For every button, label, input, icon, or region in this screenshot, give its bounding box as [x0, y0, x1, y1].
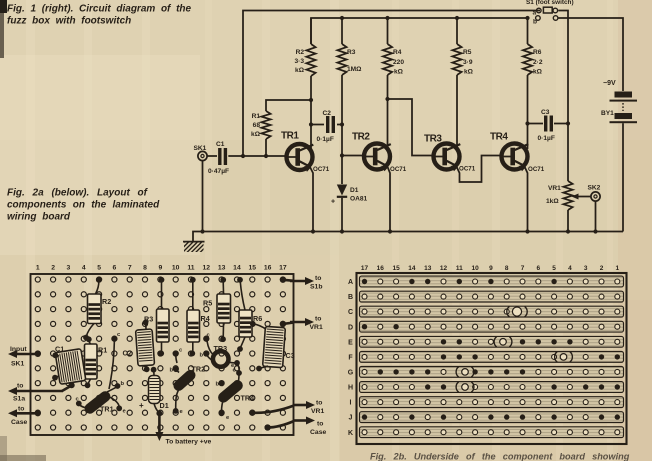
svg-text:+: + [139, 401, 144, 410]
svg-text:0·1µF: 0·1µF [538, 135, 555, 142]
svg-text:kΩ: kΩ [251, 131, 261, 138]
svg-text:D1: D1 [350, 187, 359, 194]
svg-text:3·9: 3·9 [463, 59, 473, 66]
copper strip row I [360, 397, 624, 408]
svg-text:kΩ: kΩ [464, 69, 474, 76]
wire leads TR3 [207, 341, 239, 372]
board holes grid [35, 277, 285, 430]
svg-text:to: to [317, 421, 323, 428]
strip cut row G [462, 369, 469, 376]
resistor R3 1M [337, 18, 346, 125]
svg-text:components on the laminated: components on the laminated [7, 200, 160, 211]
svg-text:7: 7 [521, 265, 525, 272]
svg-text:−9V: −9V [603, 80, 616, 87]
row letters A-K [348, 279, 354, 437]
svg-text:a: a [533, 10, 537, 17]
wire top rail (input to footswitch pole a) [243, 11, 540, 156]
svg-text:14: 14 [233, 265, 241, 272]
svg-text:SK2: SK2 [588, 185, 601, 192]
wire leads C2 [144, 324, 147, 369]
svg-text:3: 3 [67, 265, 71, 272]
wire SK2 to ground rail [595, 201, 597, 231]
wire SK1 to C1 [207, 155, 217, 157]
resistor R5 (board) [203, 294, 231, 323]
svg-text:D1: D1 [160, 401, 169, 410]
wire C1 to TR1 base [228, 155, 287, 157]
wire R6 bottom to TR4 collector [527, 124, 529, 150]
resistor R1 68k [261, 111, 270, 156]
svg-text:G: G [348, 370, 354, 377]
svg-text:K: K [348, 430, 353, 437]
svg-text:kΩ: kΩ [533, 69, 543, 76]
svg-text:16: 16 [264, 265, 272, 272]
svg-text:To battery +ve: To battery +ve [166, 439, 212, 446]
socket SK1 [194, 145, 208, 161]
svg-text:b: b [533, 19, 537, 26]
svg-text:3·3: 3·3 [294, 58, 304, 65]
svg-text:OC71: OC71 [313, 166, 330, 173]
capacitor C1 [218, 148, 227, 165]
wire C3 link left [528, 123, 544, 125]
svg-text:0·47µF: 0·47µF [208, 168, 229, 175]
svg-text:9: 9 [158, 265, 162, 272]
svg-text:OA81: OA81 [350, 196, 368, 203]
wire R3 to TR2 base [342, 125, 365, 156]
strip cut row E [500, 339, 507, 346]
svg-text:S1a: S1a [13, 396, 25, 403]
svg-text:wiring board: wiring board [7, 212, 71, 223]
svg-text:11: 11 [456, 265, 463, 272]
svg-text:13: 13 [218, 265, 226, 272]
svg-text:Case: Case [310, 429, 326, 436]
column numbers 17-1 [361, 265, 620, 272]
node R4 top [385, 16, 389, 20]
wire to S1b [283, 280, 294, 281]
svg-text:1: 1 [615, 265, 619, 272]
svg-text:to: to [316, 400, 322, 407]
svg-text:SK1: SK1 [194, 145, 207, 152]
svg-text:OC71: OC71 [390, 166, 407, 173]
wire to VR1 (upper) [283, 323, 294, 324]
svg-text:F: F [348, 354, 353, 361]
board outline Fig.2b [357, 273, 627, 444]
svg-text:R4: R4 [393, 49, 402, 56]
transistor TR3 OC71 [432, 144, 461, 172]
svg-text:J: J [349, 415, 353, 422]
svg-text:C3: C3 [286, 351, 295, 360]
wire leads TR2 [176, 355, 180, 409]
svg-text:TR4: TR4 [241, 394, 255, 403]
socket SK2 [588, 185, 601, 202]
wire C2 link left [311, 124, 324, 126]
transistor TR3 (board) [213, 344, 229, 367]
node R5 top [455, 16, 459, 20]
copper strip row A [360, 276, 624, 287]
battery BY1 [601, 80, 637, 123]
svg-text:TR3: TR3 [424, 134, 442, 145]
svg-text:13: 13 [424, 265, 432, 272]
svg-text:8: 8 [505, 265, 509, 272]
svg-text:TR4: TR4 [490, 132, 508, 143]
wire TR1 collector [310, 100, 312, 150]
svg-text:I: I [350, 400, 352, 407]
strip cut row H [462, 384, 469, 391]
node R1 bottom junction [264, 154, 268, 158]
svg-text:TR2: TR2 [192, 365, 206, 374]
caption Fig.2a [7, 188, 160, 223]
svg-text:68: 68 [253, 122, 261, 129]
svg-text:Fig. 1 (right). Circuit diag: Fig. 1 (right). Circuit diagram of the [7, 4, 192, 15]
svg-text:1MΩ: 1MΩ [347, 66, 362, 73]
svg-text:15: 15 [248, 265, 256, 272]
wire TR1 emitter to ground [310, 166, 314, 232]
wire TR4 emitter to ground [524, 166, 528, 232]
svg-text:5: 5 [97, 265, 101, 272]
svg-text:3: 3 [584, 265, 588, 272]
svg-text:R1: R1 [252, 113, 261, 120]
wire to case (right) [268, 421, 294, 428]
svg-text:OC71: OC71 [528, 166, 545, 173]
wire leads C1 [56, 355, 60, 377]
wire leads TR1 [80, 340, 120, 408]
svg-text:C3: C3 [541, 109, 550, 116]
wire ground rail [193, 232, 623, 242]
svg-text:to: to [315, 275, 321, 282]
svg-text:R5: R5 [463, 49, 472, 56]
wire leads C3 [254, 324, 269, 368]
wire input SK1 entry [15, 353, 38, 356]
wire TR2 collector to TR3 base [388, 99, 435, 156]
svg-text:1: 1 [36, 265, 40, 272]
copper strip row C [360, 306, 624, 317]
resistor R1 (board) [85, 344, 108, 379]
svg-text:E: E [348, 339, 353, 346]
wire leads R3 [161, 281, 163, 352]
svg-text:B: B [348, 294, 353, 301]
svg-text:4: 4 [568, 265, 572, 272]
svg-text:R4: R4 [201, 314, 210, 323]
ground [183, 241, 205, 252]
svg-text:15: 15 [392, 265, 400, 272]
copper strip row B [360, 291, 624, 302]
wire footswitch a to VR1 top [558, 11, 568, 124]
resistor R3 (board) [144, 309, 169, 342]
svg-text:b: b [216, 382, 220, 388]
svg-text:D: D [348, 324, 353, 331]
resistor R4 220k [383, 18, 392, 99]
wire leads R1 [88, 341, 91, 385]
svg-text:0·1µF: 0·1µF [317, 136, 334, 143]
wire to VR1 (lower) [252, 406, 294, 413]
svg-text:R2: R2 [102, 297, 111, 306]
svg-text:b: b [121, 381, 125, 387]
wire C3 link right [554, 123, 568, 125]
wire SK1 to ground rail [202, 161, 204, 232]
copper strip row H [360, 382, 624, 393]
resistor R2 3.3k [306, 18, 315, 100]
wire leads R4 [192, 281, 194, 352]
resistor R6 2.2k [523, 18, 532, 124]
svg-text:11: 11 [187, 265, 194, 272]
resistor R2 (board) [88, 294, 112, 324]
wire to S1a [62, 386, 72, 392]
transistor TR2 (board) [171, 368, 197, 393]
resistor R6 (board) [239, 310, 262, 337]
resistor R4 (board) [187, 310, 210, 342]
svg-text:R2: R2 [296, 49, 305, 56]
wire leads R6 [240, 281, 245, 348]
svg-text:BY1: BY1 [601, 110, 614, 117]
resistor R5 3.9k [452, 18, 461, 147]
svg-text:Input: Input [10, 346, 27, 353]
node C3 right junction [566, 121, 570, 125]
svg-text:TR2: TR2 [352, 132, 370, 143]
svg-text:C: C [348, 309, 353, 316]
svg-text:12: 12 [440, 265, 448, 272]
column numbers 1-17 [36, 265, 287, 272]
svg-text:R6: R6 [533, 49, 542, 56]
svg-text:R1: R1 [98, 346, 107, 355]
svg-text:kΩ: kΩ [295, 67, 305, 74]
capacitor C1 (board) [55, 349, 86, 385]
board outline Fig.2a [31, 274, 294, 435]
node TR2 collector junction [385, 97, 389, 101]
svg-text:VR1: VR1 [548, 185, 561, 192]
capacitor C3 (board) [263, 326, 286, 367]
svg-text:kΩ: kΩ [394, 69, 404, 76]
node R6 top [525, 16, 529, 20]
node C3 left junction [525, 121, 529, 125]
capacitor C3 [544, 116, 553, 132]
svg-text:to: to [315, 316, 321, 323]
wire leads R2 [87, 281, 99, 336]
svg-text:2·2: 2·2 [533, 59, 543, 66]
svg-text:A: A [348, 279, 353, 286]
svg-text:220: 220 [393, 59, 404, 66]
copper strip row F [360, 352, 624, 363]
svg-text:2: 2 [600, 265, 604, 272]
svg-text:6: 6 [113, 265, 117, 272]
svg-text:8: 8 [143, 265, 147, 272]
svg-text:S1b: S1b [310, 284, 322, 291]
strip cut row C [512, 307, 521, 316]
svg-text:C1: C1 [216, 141, 225, 148]
svg-text:S1 (foot switch): S1 (foot switch) [526, 0, 574, 6]
svg-text:R3: R3 [347, 49, 356, 56]
wire leads D1 [154, 371, 159, 412]
transistor TR4 OC71 [500, 144, 529, 172]
capacitor C2 [326, 116, 335, 133]
node C2 right junction [340, 122, 344, 126]
svg-text:SK1: SK1 [11, 361, 24, 368]
svg-text:2: 2 [51, 265, 55, 272]
svg-text:7: 7 [128, 265, 132, 272]
svg-text:14: 14 [408, 265, 416, 272]
copper strip row J [360, 412, 624, 423]
wire to battery +ve [158, 414, 161, 433]
wire TR2 collector [387, 99, 389, 147]
copper strip row G [360, 367, 624, 378]
wire C2 link right [337, 124, 342, 126]
svg-text:6: 6 [536, 265, 540, 272]
svg-text:17: 17 [361, 265, 369, 272]
transistor TR1 (board) [82, 389, 112, 416]
svg-text:Fig. 2b. Underside of the co: Fig. 2b. Underside of the component boar… [370, 452, 630, 461]
svg-text:TR1: TR1 [281, 131, 299, 142]
footswitch S1 [526, 0, 574, 26]
svg-text:to: to [17, 383, 23, 390]
svg-text:to: to [18, 406, 24, 413]
node R3 top [340, 16, 344, 20]
caption Fig.1 [7, 4, 192, 27]
svg-text:16: 16 [377, 265, 385, 272]
strip cut row F [560, 354, 567, 361]
diode D1 (board) [139, 376, 169, 411]
wire battery to ground rail [622, 123, 624, 231]
svg-text:Case: Case [11, 419, 27, 426]
potentiometer VR1 1k [546, 124, 591, 232]
svg-text:C2: C2 [323, 110, 332, 117]
svg-text:C1: C1 [55, 345, 64, 354]
copper strip row E [360, 336, 624, 347]
svg-text:9: 9 [489, 265, 493, 272]
svg-text:17: 17 [279, 265, 287, 272]
wire to case (left) [15, 412, 38, 415]
capacitor C2 (board) [136, 329, 155, 366]
svg-text:10: 10 [172, 265, 180, 272]
svg-text:10: 10 [471, 265, 479, 272]
diode D1 OA81 [331, 156, 368, 232]
svg-text:R5: R5 [203, 299, 212, 308]
svg-text:5: 5 [552, 265, 556, 272]
svg-text:C2: C2 [123, 349, 132, 358]
wire leads TR4 [222, 375, 240, 412]
svg-text:+: + [331, 199, 335, 206]
svg-text:b: b [200, 353, 204, 359]
wire supply rail (resistor tops to footswitch pole b) [311, 18, 528, 44]
wire leads R5 [222, 281, 224, 338]
copper strip row K [360, 427, 624, 438]
svg-text:VR1: VR1 [310, 324, 323, 331]
wire TR2 emitter to ground [387, 166, 390, 232]
wire footswitch b to battery [559, 18, 624, 91]
transistor TR2 OC71 [362, 144, 391, 172]
svg-text:Fig. 2a (below). Layout of: Fig. 2a (below). Layout of [7, 188, 149, 199]
copper strip row D [360, 321, 624, 332]
svg-text:OC71: OC71 [459, 166, 476, 173]
svg-text:H: H [348, 385, 353, 392]
wire R1 top link [266, 100, 311, 111]
transistor TR4 (board) [216, 378, 245, 405]
node C2 left junction [309, 122, 313, 126]
svg-text:TR3: TR3 [214, 344, 228, 353]
svg-text:1kΩ: 1kΩ [546, 198, 559, 205]
svg-text:VR1: VR1 [311, 408, 324, 415]
node R2/R1 junction [309, 98, 313, 102]
node input junction [241, 154, 245, 158]
transistor TR1 OC71 [285, 144, 314, 172]
svg-text:4: 4 [82, 265, 86, 272]
wire TR3 emitter to TR4 base [456, 156, 502, 183]
svg-text:b: b [170, 368, 174, 374]
svg-text:12: 12 [203, 265, 211, 272]
svg-text:fuzz box with footswitch: fuzz box with footswitch [7, 16, 131, 27]
svg-text:TR1: TR1 [100, 405, 114, 414]
